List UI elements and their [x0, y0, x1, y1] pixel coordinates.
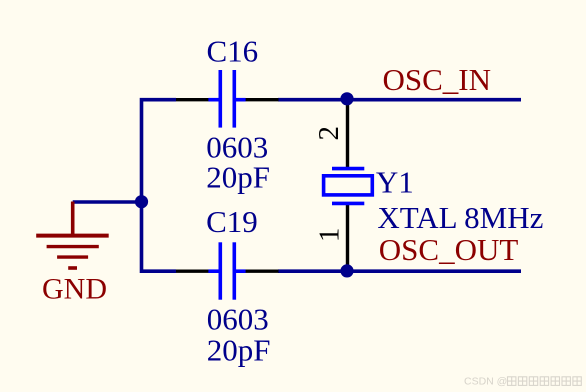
svg-text:2: 2 [313, 126, 345, 141]
svg-text:20pF: 20pF [206, 160, 270, 195]
svg-text:C19: C19 [206, 204, 258, 239]
svg-text:20pF: 20pF [207, 333, 271, 368]
svg-text:OSC_OUT: OSC_OUT [379, 232, 519, 267]
svg-text:XTAL 8MHz: XTAL 8MHz [377, 200, 543, 235]
svg-text:1: 1 [314, 228, 346, 243]
svg-text:C16: C16 [207, 34, 259, 69]
svg-text:CSDN @: CSDN @ [464, 376, 507, 388]
svg-text:0603: 0603 [207, 302, 269, 337]
svg-text:OSC_IN: OSC_IN [383, 62, 492, 97]
svg-text:GND: GND [42, 272, 107, 305]
svg-text:Y1: Y1 [376, 164, 414, 199]
